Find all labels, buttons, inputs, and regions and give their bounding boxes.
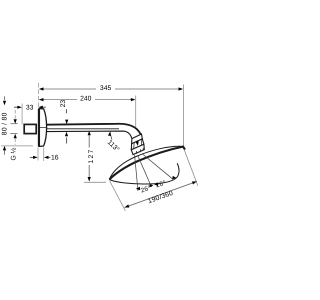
svg-text:16: 16 xyxy=(51,155,59,162)
wall flange xyxy=(39,109,47,147)
dimension 23 (pipe) xyxy=(60,100,68,144)
svg-text:240: 240 xyxy=(80,95,92,102)
wire: left extension xyxy=(110,181,126,211)
dimension 345 xyxy=(39,85,183,92)
disc rim thick edge xyxy=(109,147,185,180)
axis line through flange xyxy=(39,127,47,129)
svg-text:23: 23 xyxy=(60,100,67,108)
dimension 80/80 xyxy=(1,96,33,155)
svg-text:33: 33 xyxy=(26,104,34,111)
dimension 240 xyxy=(39,95,135,102)
wire: extension line for 33 xyxy=(21,104,23,125)
wire: extension line at spray plane xyxy=(84,181,106,183)
shower arm xyxy=(46,124,141,139)
svg-text:127: 127 xyxy=(88,148,95,163)
spray lines xyxy=(135,154,173,191)
wire: extension line flange bottom xyxy=(1,145,33,147)
svg-text:345: 345 xyxy=(100,85,112,92)
svg-text:80 / 80: 80 / 80 xyxy=(2,112,9,135)
wire: extension line left (flange face, dashed) xyxy=(38,83,40,108)
wire: extension line right for 345 xyxy=(182,85,184,147)
dimension 127 xyxy=(84,131,106,183)
spray angle arrows 26 xyxy=(136,176,177,190)
arrow on connector (end of 240 reference) xyxy=(136,141,140,146)
svg-text:G ½: G ½ xyxy=(10,147,17,160)
wire: right extension xyxy=(184,150,198,186)
disc top thin edge xyxy=(109,146,183,179)
connector / ball joint xyxy=(131,134,144,155)
dimension 16 xyxy=(30,148,59,162)
hatch marks xyxy=(134,139,144,154)
arm top edge + elbow outer curve xyxy=(46,124,141,135)
nut G1/2 xyxy=(24,124,36,133)
flange wall edge thick xyxy=(38,109,40,146)
arm mid thin line xyxy=(46,128,119,130)
shower head disc xyxy=(109,146,185,184)
wire: extension line for 240 xyxy=(135,96,137,128)
spray face ellipse arc xyxy=(109,163,179,184)
arm bottom edge + elbow inner curve xyxy=(46,131,132,138)
label 113 with leader xyxy=(106,131,121,154)
dimension 190/360 diagonal xyxy=(110,150,198,211)
dimension 33 xyxy=(14,104,46,111)
dimension G 1/2 xyxy=(10,110,18,161)
